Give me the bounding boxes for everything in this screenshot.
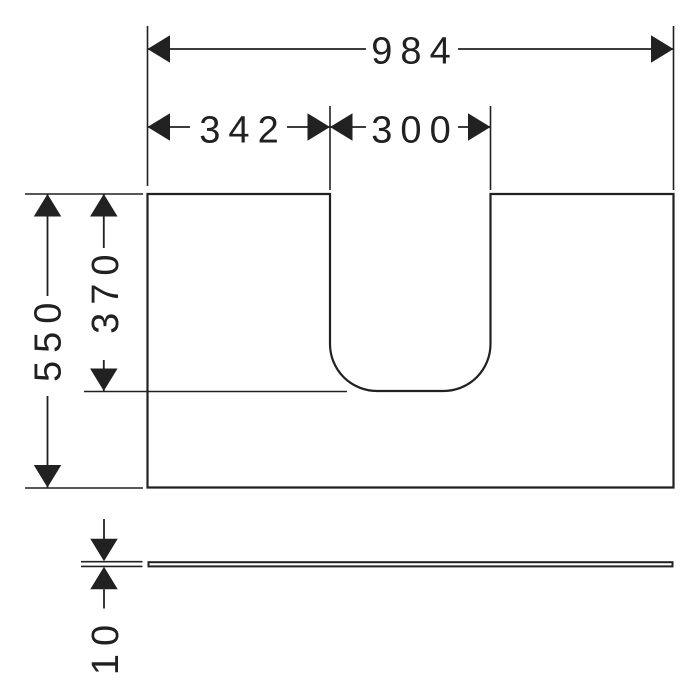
arrowhead 10 down — [90, 539, 118, 562]
dimension line 550 — [47, 194, 49, 488]
arrowhead 10 up — [90, 567, 118, 590]
extension line top edge (550/370) — [25, 193, 143, 195]
dimension line 10 lower leader — [103, 589, 105, 608]
arrowhead 984 left — [148, 35, 171, 63]
extension line cut-out left (342/300) — [329, 106, 331, 190]
label 342 — [190, 109, 287, 147]
dimension line 370 — [103, 194, 105, 391]
arrowhead 370 down — [90, 369, 118, 392]
extension line bottom edge (550) — [25, 487, 143, 489]
dimension line 984 — [148, 48, 674, 50]
svg-text:342: 342 — [199, 110, 286, 152]
dimension line 10 upper leader — [103, 519, 105, 540]
svg-text:300: 300 — [371, 110, 458, 152]
dimension line 300 — [330, 126, 491, 128]
extension line cut-out depth (370) — [84, 391, 347, 393]
label 550 — [28, 296, 66, 396]
arrowhead 300 left — [330, 113, 353, 141]
label 984 — [366, 31, 458, 69]
arrowhead 300 right — [468, 113, 491, 141]
label 370 — [84, 248, 122, 360]
arrowhead 370 up — [90, 194, 118, 217]
extension line slab top (10) — [81, 561, 143, 563]
label 300 — [366, 109, 458, 147]
countertop outline (plan view with U cut-out) — [148, 194, 674, 488]
arrowhead 550 up — [34, 194, 62, 217]
extension line slab bottom (10) — [81, 565, 143, 567]
svg-text:370: 370 — [85, 246, 127, 333]
svg-text:984: 984 — [371, 31, 458, 73]
arrowhead 550 down — [34, 465, 62, 488]
svg-text:10: 10 — [85, 617, 127, 675]
extension line right edge (984) — [673, 26, 675, 190]
arrowhead 342 left — [148, 113, 171, 141]
slab side view (10 mm plate) — [149, 562, 673, 566]
extension line left edge (984/342) — [147, 26, 149, 186]
dimension line 342 — [148, 126, 331, 128]
extension line cut-out right (300) — [490, 106, 492, 190]
arrowhead 984 right — [651, 35, 674, 63]
svg-text:550: 550 — [28, 295, 70, 382]
arrowhead 342 right — [308, 113, 331, 141]
